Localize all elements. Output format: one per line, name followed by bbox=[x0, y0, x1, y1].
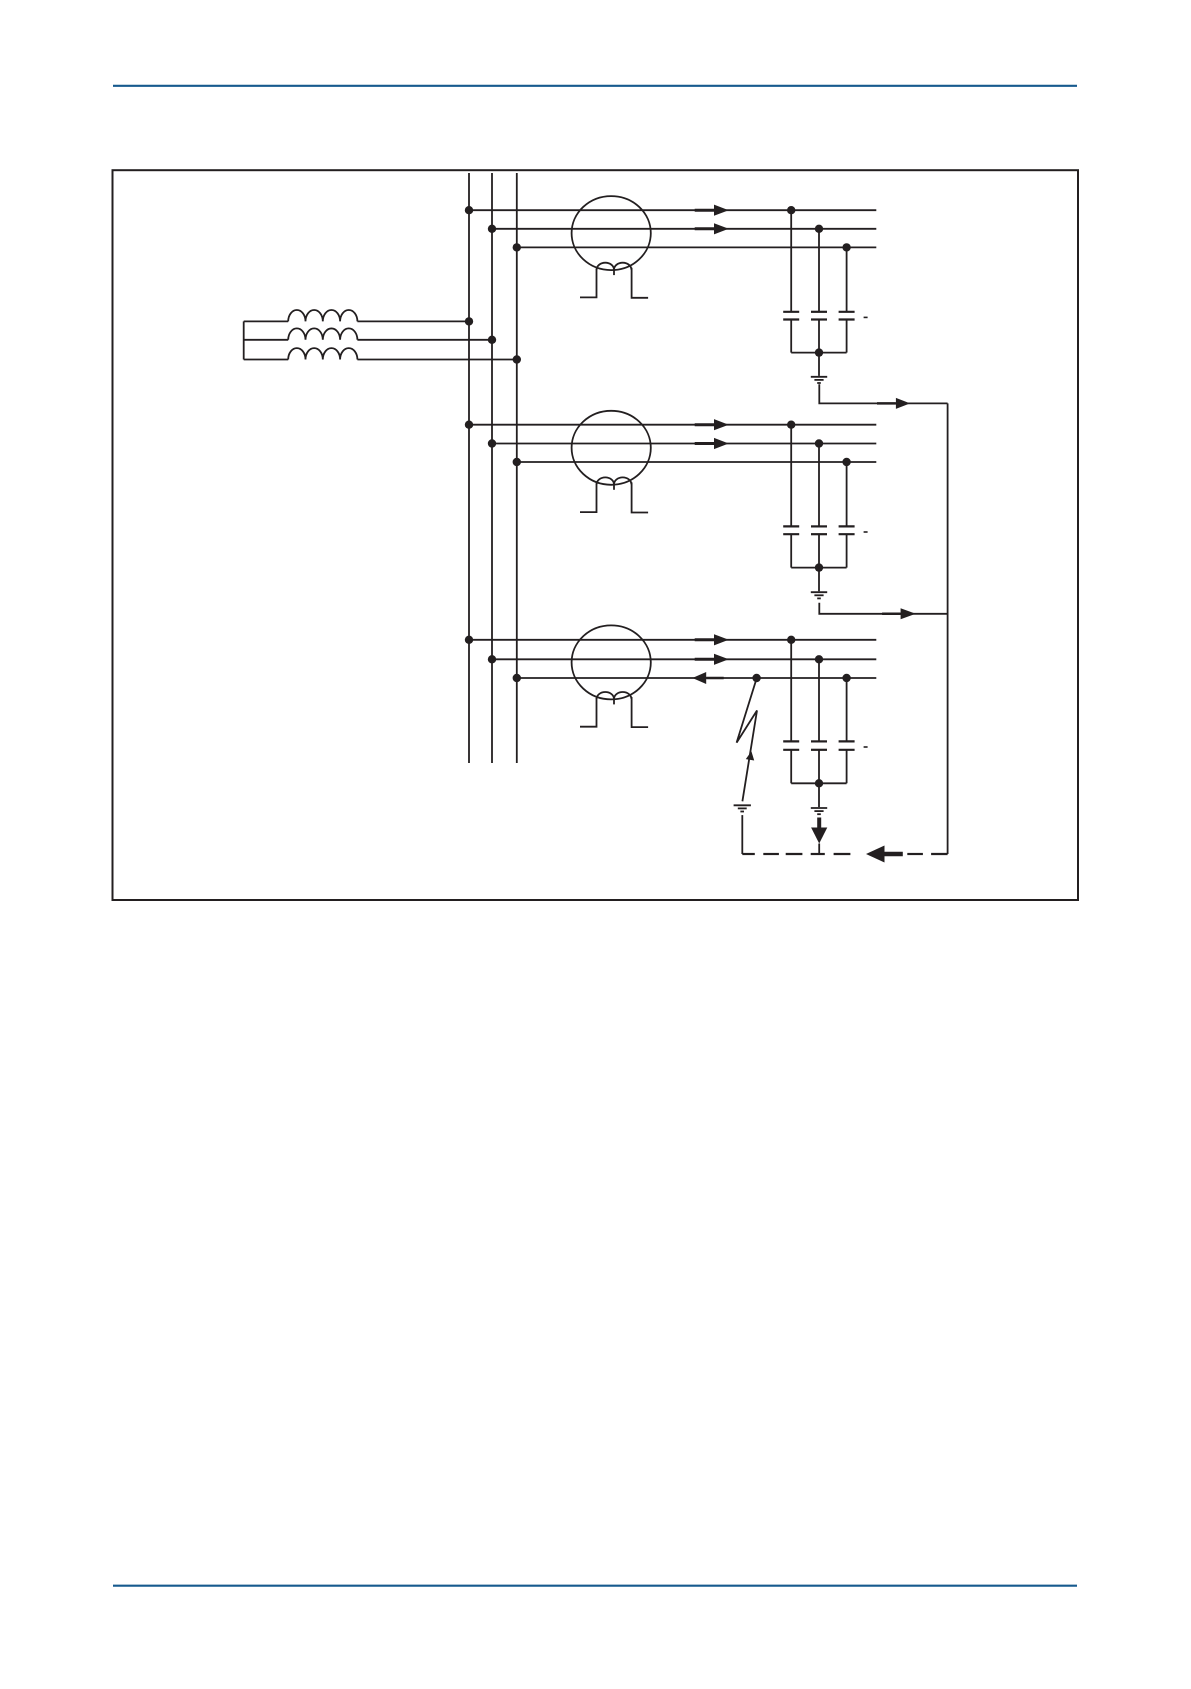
wire feeder 1 capacitor bus bbox=[791, 352, 846, 354]
wire T2 winding centre tail bbox=[613, 485, 615, 490]
transformer T3 secondary winding bbox=[597, 692, 632, 699]
wire feeder 1 earth lead bbox=[818, 353, 820, 376]
arrow fault current into earth bbox=[811, 818, 827, 856]
node feeder 2 cap tap 2 bbox=[815, 439, 823, 447]
node feeder 1 phase 2 tap bbox=[488, 225, 496, 233]
arrow feeder 2 phase 2 current bbox=[695, 438, 729, 449]
node coil 2 to bus bbox=[488, 336, 496, 344]
wire feeder 2 cap lead 1 bbox=[790, 425, 792, 527]
node feeder 3 cap tap 1 bbox=[787, 636, 795, 644]
wire feeder 2 phase 3 bbox=[517, 461, 877, 463]
wire return bus vertical bbox=[947, 403, 949, 854]
capacitor C23 bbox=[839, 526, 855, 534]
figure frame bbox=[113, 170, 1079, 900]
arrow feeder 1 phase 2 current bbox=[695, 223, 729, 234]
ground feeder 1 bbox=[811, 377, 827, 383]
node feeder 2 phase 3 tap bbox=[513, 458, 521, 466]
node coil 1 to bus bbox=[465, 317, 473, 325]
footer rule bbox=[113, 1585, 1077, 1587]
inductor L2 bbox=[288, 328, 357, 339]
wire feeder 2 cap lead 2 bbox=[818, 444, 820, 527]
ground feeder 2 bbox=[811, 592, 827, 598]
node coil 3 to bus bbox=[513, 355, 521, 363]
node feeder 3 phase 1 tap bbox=[465, 636, 473, 644]
label dash feeder 3 bbox=[864, 746, 868, 748]
wire feeder 2 earth lead bbox=[818, 568, 820, 592]
wire feeder 3 earth lead bbox=[818, 783, 820, 807]
node feeder 2 cap tap 3 bbox=[842, 458, 850, 466]
transformer T3 bbox=[572, 625, 651, 699]
capacitor C31 bbox=[783, 741, 799, 749]
arrow return current feeder 1 bbox=[877, 398, 910, 409]
arrow feeder 3 phase 3 fault current (reverse) bbox=[692, 672, 723, 684]
wire coil 3 left lead bbox=[244, 359, 289, 361]
wire feeder 3 cap bottom lead 2 bbox=[818, 750, 820, 784]
node feeder 3 cap tap 2 bbox=[815, 655, 823, 663]
wire feeder 2 cap bottom lead 1 bbox=[790, 534, 792, 567]
wire feeder 2 phase 1 bbox=[469, 424, 876, 426]
wire feeder 1 phase 1 bbox=[469, 209, 876, 211]
wire return path feeder 2 bbox=[819, 603, 947, 614]
wire feeder 1 cap bottom lead 3 bbox=[846, 320, 848, 353]
transformer T1 secondary winding bbox=[597, 263, 632, 270]
capacitor C22 bbox=[811, 526, 827, 534]
wire feeder 1 cap lead 1 bbox=[790, 210, 792, 312]
wire feeder 3 cap lead 3 bbox=[846, 678, 848, 741]
arrow return current feeder 2 bbox=[882, 608, 916, 619]
capacitor C32 bbox=[811, 741, 827, 749]
node feeder 1 cap tap 3 bbox=[842, 243, 850, 251]
arrow feeder 2 phase 1 current bbox=[695, 419, 729, 430]
node feeder 1 cap tap 2 bbox=[815, 225, 823, 233]
node feeder 2 phase 1 tap bbox=[465, 421, 473, 429]
capacitor C21 bbox=[783, 526, 799, 534]
wire T3 secondary right lead bbox=[632, 697, 649, 727]
node fault point bbox=[752, 674, 760, 682]
wire T1 secondary right lead bbox=[632, 268, 649, 298]
wire earth return to bus corner bbox=[931, 853, 948, 855]
wire feeder 3 capacitor bus bbox=[791, 782, 846, 784]
wire feeder 3 cap lead 1 bbox=[790, 640, 792, 742]
wire return path feeder 1 bbox=[819, 384, 947, 403]
node feeder 3 cap tap 3 bbox=[842, 674, 850, 682]
transformer T1 bbox=[572, 196, 651, 270]
capacitor C33 bbox=[839, 741, 855, 749]
node feeder 1 capacitor bus junction bbox=[815, 348, 823, 356]
label dash feeder 2 bbox=[864, 531, 868, 533]
wire T3 secondary left lead bbox=[580, 698, 597, 727]
wire T2 secondary left lead bbox=[580, 483, 597, 512]
wire feeder 1 phase 3 bbox=[517, 246, 877, 248]
node feeder 2 cap tap 1 bbox=[787, 421, 795, 429]
wire T1 winding centre tail bbox=[613, 270, 615, 275]
wire feeder 1 cap lead 2 bbox=[818, 229, 820, 312]
wire feeder 1 cap lead 3 bbox=[846, 247, 848, 311]
wire feeder 1 cap bottom lead 2 bbox=[818, 320, 820, 353]
wire feeder 2 cap bottom lead 3 bbox=[846, 534, 848, 567]
wire coil 3 right lead bbox=[357, 359, 516, 361]
wire feeder 2 phase 2 bbox=[492, 443, 876, 445]
label dash feeder 1 bbox=[864, 316, 868, 318]
ground fault earth bbox=[734, 805, 751, 811]
inductor L1 bbox=[288, 310, 357, 321]
wire neutral link bbox=[243, 321, 245, 359]
node feeder 3 phase 2 tap bbox=[488, 655, 496, 663]
wire feeder 2 cap bottom lead 2 bbox=[818, 534, 820, 567]
node feeder 1 phase 3 tap bbox=[513, 243, 521, 251]
arrow fault bolt head bbox=[746, 751, 754, 760]
wire feeder 3 phase 2 bbox=[492, 658, 876, 660]
arrow earth return current bbox=[866, 846, 903, 863]
transformer T2 secondary winding bbox=[597, 477, 632, 484]
inductor L3 bbox=[288, 348, 357, 359]
header rule bbox=[113, 85, 1077, 87]
wire feeder 3 phase 3 bbox=[517, 677, 877, 679]
wire fault earth lead bbox=[741, 815, 743, 854]
wire bus C bbox=[516, 173, 518, 763]
transformer T2 bbox=[572, 411, 651, 485]
node feeder 2 capacitor bus junction bbox=[815, 563, 823, 571]
wire T3 winding centre tail bbox=[613, 699, 615, 704]
node feeder 1 cap tap 1 bbox=[787, 206, 795, 214]
capacitor C12 bbox=[811, 312, 827, 320]
arrow feeder 3 phase 2 current bbox=[695, 654, 729, 665]
wire coil 2 left lead bbox=[244, 339, 289, 341]
wire feeder 3 cap bottom lead 3 bbox=[846, 750, 848, 784]
arrow feeder 1 phase 1 current bbox=[695, 205, 729, 216]
wire earth return corner piece bbox=[742, 853, 755, 855]
wire feeder 2 capacitor bus bbox=[791, 567, 846, 569]
wire feeder 3 cap bottom lead 1 bbox=[790, 750, 792, 784]
arrow feeder 3 phase 1 current bbox=[695, 634, 729, 645]
wire feeder 2 cap lead 3 bbox=[846, 462, 848, 526]
wire bus A bbox=[468, 173, 470, 763]
node feeder 3 phase 3 tap bbox=[513, 674, 521, 682]
node feeder 3 capacitor bus junction bbox=[815, 779, 823, 787]
capacitor C13 bbox=[839, 312, 855, 320]
node feeder 1 phase 1 tap bbox=[465, 206, 473, 214]
wire feeder 1 cap bottom lead 1 bbox=[790, 320, 792, 353]
fault bolt bbox=[737, 679, 757, 802]
wire coil 2 right lead bbox=[357, 339, 492, 341]
wire feeder 3 phase 1 bbox=[469, 639, 876, 641]
capacitor C11 bbox=[783, 312, 799, 320]
wire earth return dashed bbox=[763, 853, 779, 855]
wire coil 1 left lead bbox=[244, 320, 289, 322]
wire T2 secondary right lead bbox=[632, 482, 649, 512]
node feeder 2 phase 2 tap bbox=[488, 439, 496, 447]
wire feeder 3 cap lead 2 bbox=[818, 659, 820, 741]
wire feeder 1 phase 2 bbox=[492, 228, 876, 230]
wire bus B bbox=[491, 173, 493, 763]
ground feeder 3 bbox=[811, 808, 827, 814]
wire coil 1 right lead bbox=[357, 320, 469, 322]
wire T1 secondary left lead bbox=[580, 269, 597, 298]
